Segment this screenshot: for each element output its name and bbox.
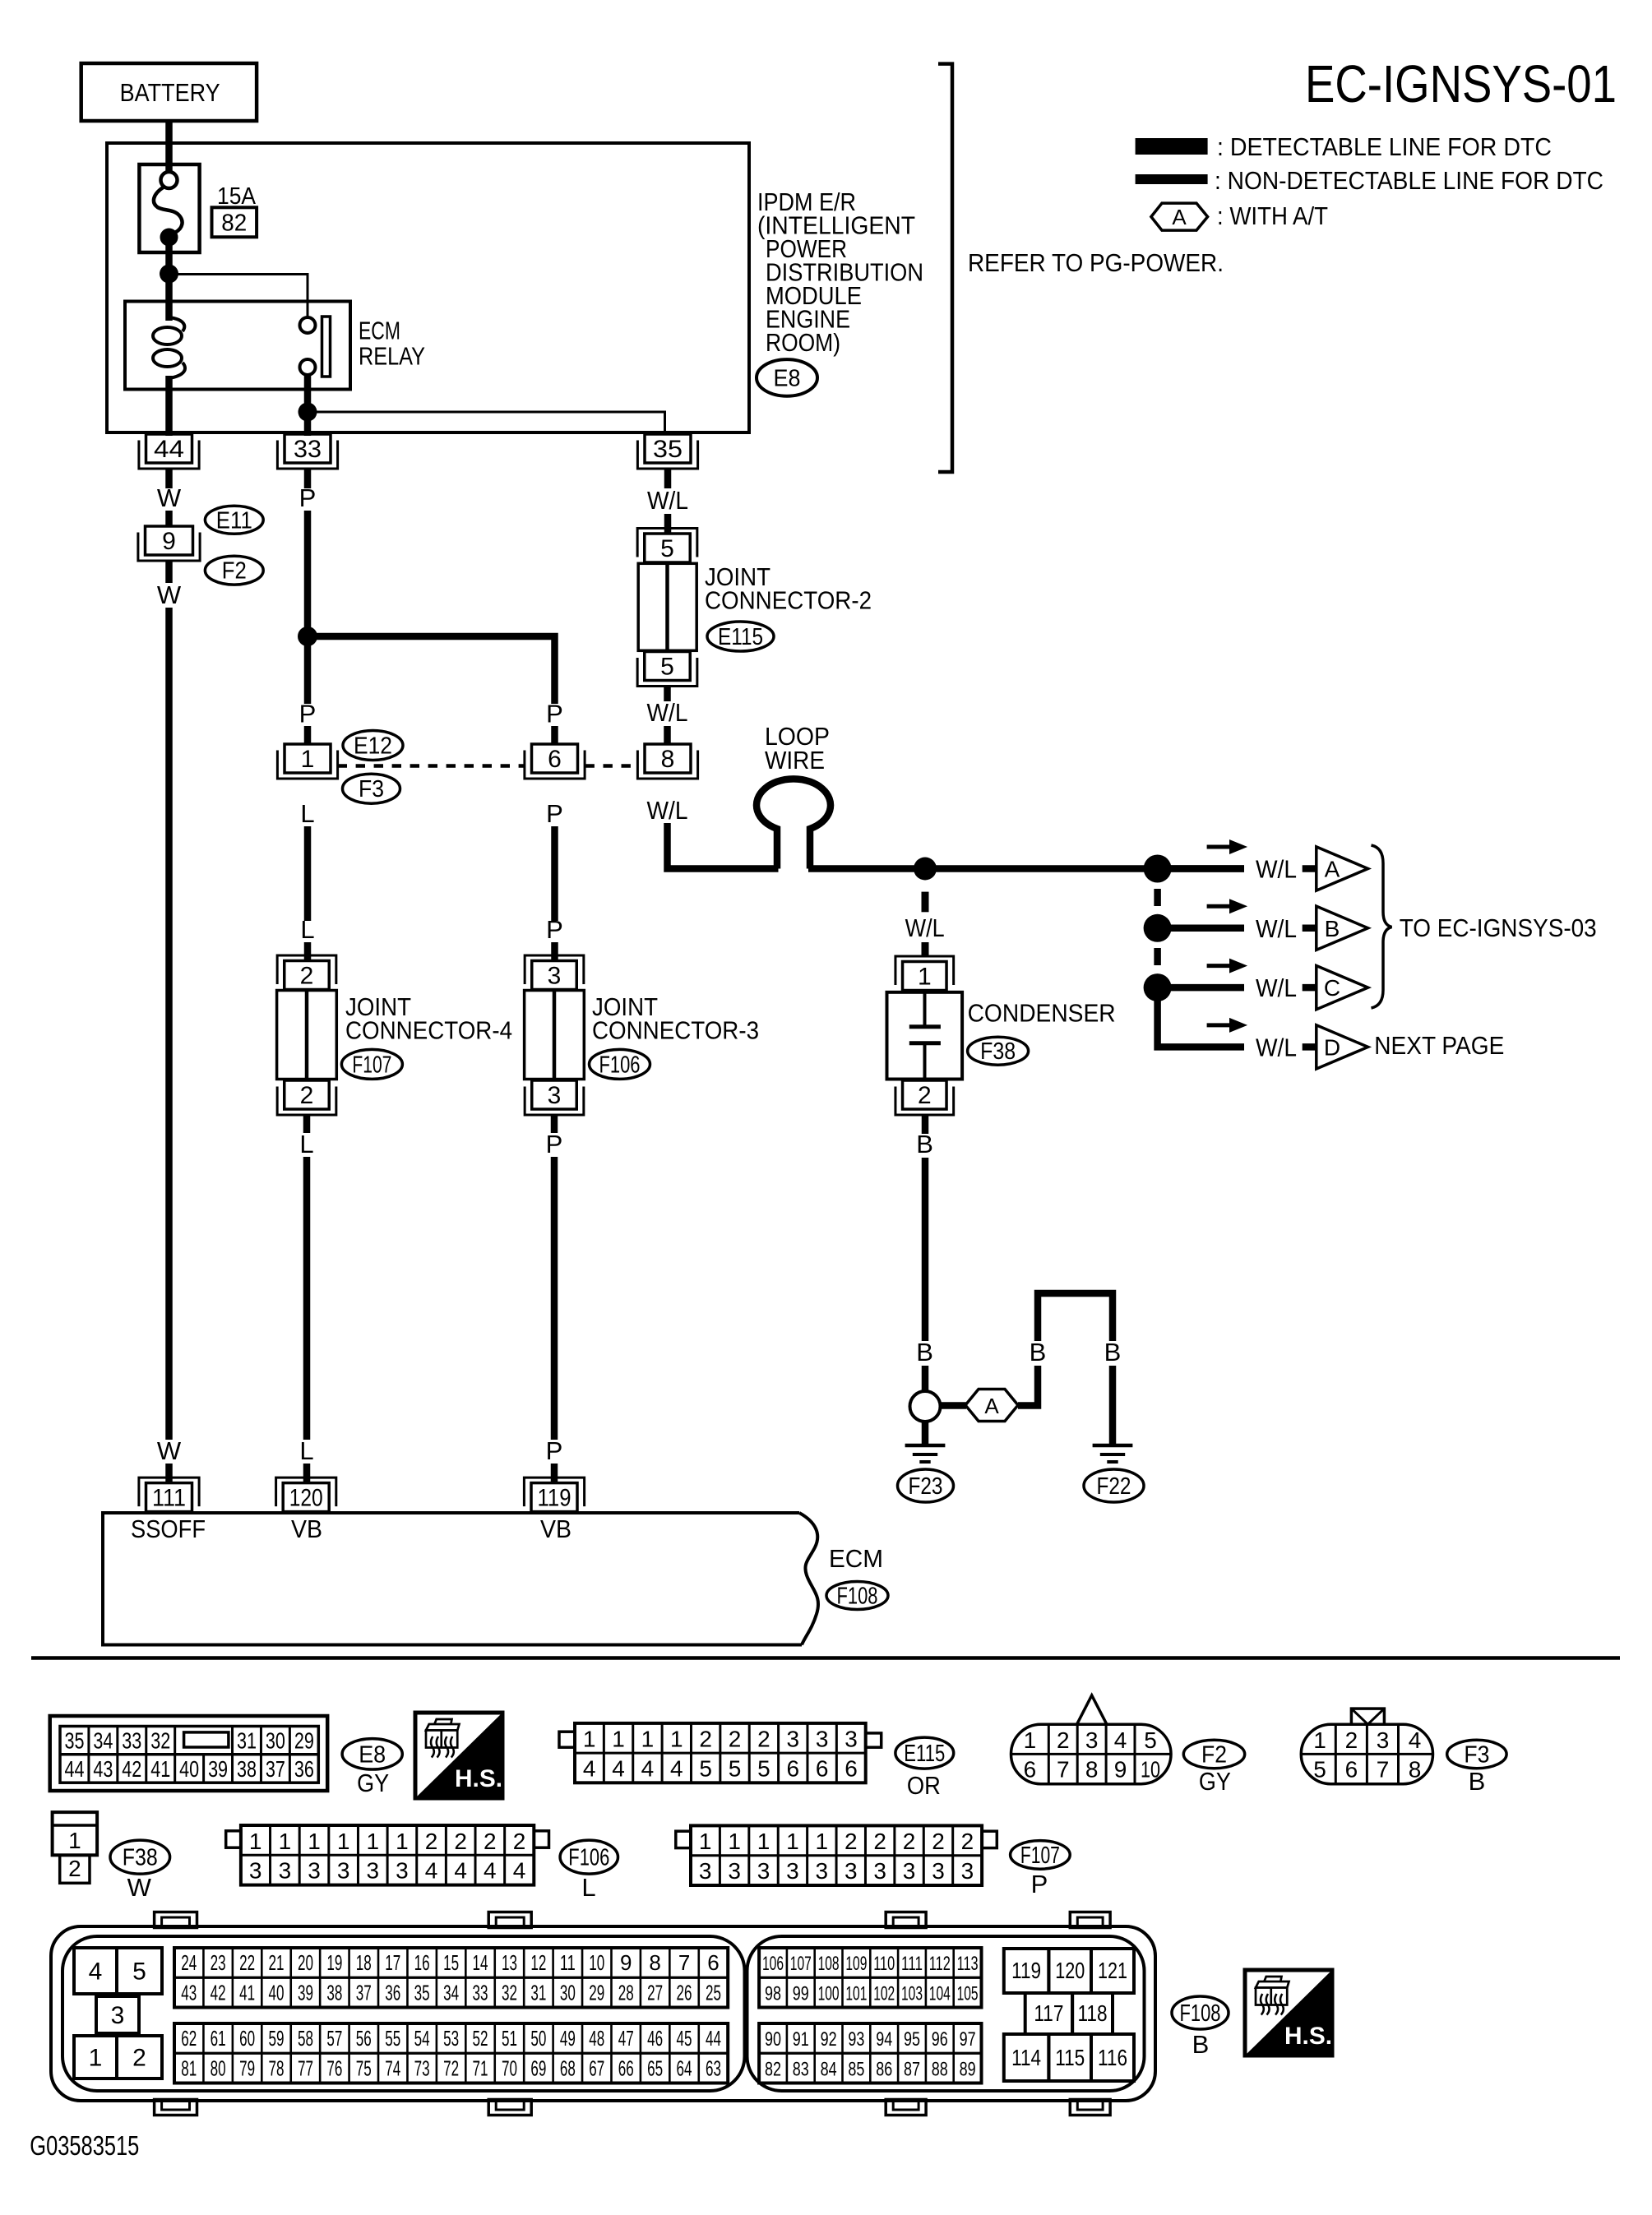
svg-text:1: 1 [249, 1829, 262, 1854]
svg-text:ECM: ECM [359, 317, 400, 345]
svg-text:40: 40 [269, 1980, 285, 2005]
svg-text:: DETECTABLE LINE FOR DTC: : DETECTABLE LINE FOR DTC [1217, 132, 1552, 161]
ECM connector bank pins 44-81 [174, 2023, 728, 2083]
svg-text:1: 1 [308, 1829, 321, 1854]
svg-text:E11: E11 [216, 507, 252, 534]
ECM pin 111 [139, 1477, 199, 1512]
wire branch A [1168, 865, 1244, 872]
svg-text:52: 52 [473, 2026, 488, 2051]
legend detectable line bar [1136, 138, 1208, 155]
svg-text:P: P [546, 700, 563, 728]
svg-text:1: 1 [918, 964, 932, 991]
IPDM pin 33 [277, 434, 337, 469]
svg-text:1: 1 [366, 1829, 379, 1854]
svg-text:E8: E8 [359, 1741, 386, 1768]
svg-text:F2: F2 [1201, 1742, 1227, 1769]
svg-text:30: 30 [266, 1728, 285, 1754]
svg-text:77: 77 [298, 2055, 313, 2080]
svg-text:5: 5 [1144, 1727, 1157, 1753]
svg-text:46: 46 [647, 2026, 663, 2051]
svg-text:W/L: W/L [1256, 914, 1297, 943]
svg-text:96: 96 [932, 2028, 948, 2051]
svg-text:85: 85 [848, 2058, 864, 2080]
connector oval F3 [343, 774, 400, 803]
svg-text:L: L [300, 915, 314, 944]
IPDM pin 35 [637, 434, 697, 469]
svg-text:34: 34 [93, 1728, 113, 1754]
ECM connector bottom tab 2 [488, 2100, 531, 2116]
svg-text:2: 2 [845, 1829, 858, 1854]
condenser C1 body [887, 992, 963, 1080]
svg-text:30: 30 [560, 1980, 576, 2005]
legend hexagon A symbol [1151, 203, 1208, 230]
IPDM E/R box E8 [107, 143, 749, 432]
svg-text:120: 120 [289, 1485, 323, 1512]
svg-text:107: 107 [790, 1953, 812, 1975]
svg-text:31: 31 [530, 1980, 546, 2005]
svg-text:21: 21 [269, 1950, 285, 1975]
ECM connector top tab 1 [155, 1912, 197, 1928]
joint connector-3 bottom pin 3 [525, 1080, 584, 1115]
dashed wire to condenser [922, 892, 929, 955]
wire B stub to shield circle [922, 1366, 929, 1391]
connector oval F108 schematic [826, 1582, 888, 1610]
svg-text:67: 67 [589, 2055, 604, 2080]
svg-text:2: 2 [1345, 1727, 1358, 1753]
svg-text:1: 1 [786, 1829, 799, 1854]
svg-text:3: 3 [548, 963, 562, 990]
connector oval E12 [343, 731, 403, 761]
wire W stub to connector 9 [165, 511, 173, 527]
connector face F107 pinout [676, 1825, 997, 1885]
svg-text:NEXT PAGE: NEXT PAGE [1374, 1031, 1504, 1060]
svg-text:116: 116 [1098, 2045, 1127, 2070]
wire branch D elbow [1158, 998, 1244, 1047]
wire battery to IPDM [165, 121, 173, 173]
svg-text:47: 47 [618, 2026, 634, 2051]
brace to EC-IGNSYS-03 [1372, 845, 1392, 1008]
connector oval E11 [205, 506, 263, 534]
svg-text:115: 115 [1055, 2045, 1085, 2070]
svg-text:F2: F2 [222, 558, 247, 585]
svg-text:3: 3 [396, 1858, 409, 1884]
inline connector pin 8 [637, 744, 697, 779]
svg-text:REFER TO PG-POWER.: REFER TO PG-POWER. [968, 248, 1224, 277]
svg-text:G03583515: G03583515 [30, 2130, 139, 2161]
wire P2 run [551, 826, 558, 921]
svg-text:54: 54 [414, 2026, 430, 2051]
svg-text:118: 118 [1078, 2000, 1108, 2026]
svg-text:12: 12 [530, 1950, 546, 1975]
svg-text:7: 7 [678, 1950, 690, 1975]
svg-text:6: 6 [707, 1950, 719, 1975]
loop wire [757, 779, 831, 868]
svg-text:51: 51 [502, 2026, 517, 2051]
svg-text:5: 5 [699, 1756, 712, 1782]
svg-text:2: 2 [425, 1829, 438, 1854]
svg-text:38: 38 [326, 1980, 342, 2005]
connector oval E115 detail [895, 1737, 954, 1769]
wire branch D stub [1303, 1043, 1316, 1051]
junction dot branch C [1144, 973, 1172, 1001]
svg-text:H.S.: H.S. [455, 1765, 502, 1792]
wire branch B stub [1303, 925, 1316, 932]
svg-text:1: 1 [816, 1829, 829, 1854]
svg-text:3: 3 [111, 2002, 125, 2029]
svg-text:78: 78 [269, 2055, 285, 2080]
svg-text:F23: F23 [909, 1473, 943, 1500]
svg-text:B: B [1325, 916, 1340, 941]
svg-text:E115: E115 [904, 1741, 945, 1767]
svg-text:EC-IGNSYS-01: EC-IGNSYS-01 [1305, 54, 1617, 113]
svg-text:A: A [1172, 205, 1187, 229]
svg-text:D: D [1324, 1034, 1340, 1060]
off-page triangle B [1317, 906, 1368, 950]
svg-text:W: W [127, 1873, 152, 1902]
arrow branch A [1207, 839, 1248, 854]
svg-text:P: P [1031, 1870, 1048, 1898]
wire P2 stub to ECM 119 [551, 1464, 558, 1484]
svg-text:3: 3 [961, 1858, 974, 1884]
wire circle to hexagon [941, 1402, 967, 1409]
svg-text:26: 26 [677, 1980, 692, 2005]
off-page triangle A [1317, 847, 1368, 890]
svg-text:4: 4 [425, 1858, 438, 1884]
svg-text:B: B [1469, 1767, 1486, 1796]
svg-text:F106: F106 [599, 1052, 641, 1078]
svg-text:11: 11 [560, 1950, 576, 1975]
wire 9 stub down [165, 561, 173, 583]
relay label ECM RELAY [359, 317, 425, 371]
svg-text:P: P [299, 483, 317, 512]
connector oval F23 [898, 1469, 954, 1502]
svg-text:3: 3 [249, 1858, 262, 1884]
svg-text:63: 63 [706, 2055, 721, 2080]
wire branch C stub [1303, 984, 1316, 992]
svg-text:4: 4 [583, 1756, 596, 1782]
dashed link 1 to 6 [338, 764, 525, 768]
svg-text:1: 1 [757, 1829, 770, 1854]
connector face E115 pinout [559, 1723, 882, 1783]
svg-text:41: 41 [239, 1980, 255, 2005]
joint connector-3 body F106 [525, 991, 585, 1080]
svg-text:48: 48 [589, 2026, 604, 2051]
svg-text:1: 1 [699, 1829, 712, 1854]
svg-text:41: 41 [150, 1756, 170, 1782]
wire P stub into 1 [304, 726, 312, 745]
svg-text:31: 31 [237, 1728, 257, 1754]
svg-text:35: 35 [414, 1980, 430, 2005]
wire P2 long run [551, 1157, 558, 1440]
fuse number 82 box [212, 207, 257, 237]
relay coil [153, 317, 185, 378]
svg-text:3: 3 [845, 1858, 858, 1884]
connector oval F2 [205, 556, 263, 585]
arrow branch D [1207, 1018, 1248, 1033]
svg-text:4: 4 [641, 1756, 655, 1782]
svg-text:76: 76 [326, 2055, 342, 2080]
connector oval F108 detail [1172, 1996, 1229, 2029]
svg-text:5: 5 [660, 654, 674, 681]
svg-text:43: 43 [93, 1756, 113, 1782]
svg-text:3: 3 [932, 1858, 945, 1884]
svg-text:10: 10 [589, 1950, 604, 1975]
svg-text:119: 119 [538, 1485, 571, 1512]
ground symbol F22 [1093, 1445, 1133, 1462]
svg-text:27: 27 [647, 1980, 663, 2005]
ECM box F108 [103, 1513, 818, 1645]
inline connector pin 6 [525, 744, 585, 779]
svg-text:108: 108 [818, 1953, 840, 1975]
svg-text:4: 4 [612, 1756, 625, 1782]
svg-text:GY: GY [1199, 1767, 1231, 1796]
svg-text:4: 4 [1409, 1727, 1422, 1753]
junction dot relay output [298, 403, 317, 422]
svg-text:4: 4 [670, 1756, 683, 1782]
svg-text:38: 38 [237, 1756, 257, 1782]
joint connector-4 label [345, 992, 512, 1045]
svg-text:19: 19 [326, 1950, 342, 1975]
svg-text:64: 64 [677, 2055, 692, 2080]
svg-text:73: 73 [414, 2055, 430, 2080]
svg-text:25: 25 [706, 1980, 721, 2005]
joint connector-3 top pin 3 [525, 955, 584, 990]
ECM relay box [125, 302, 350, 390]
svg-text:55: 55 [385, 2026, 400, 2051]
connector oval F2 detail [1183, 1740, 1244, 1768]
joint connector-2 bottom pin 5 [637, 652, 697, 687]
svg-text:43: 43 [181, 1980, 197, 2005]
ECM connector key block pins 1-5 [74, 1948, 162, 2079]
arrow branch B [1207, 899, 1248, 913]
svg-text:81: 81 [181, 2055, 197, 2080]
svg-text:45: 45 [677, 2026, 692, 2051]
svg-text:1: 1 [641, 1727, 655, 1752]
svg-text:91: 91 [793, 2028, 809, 2051]
svg-text:P: P [299, 700, 317, 728]
connector oval F107 schematic [341, 1049, 402, 1079]
svg-text:1: 1 [728, 1829, 741, 1854]
svg-text:W: W [157, 580, 182, 609]
svg-text:3: 3 [757, 1858, 770, 1884]
svg-text:119: 119 [1011, 1958, 1041, 1983]
wire branch B [1168, 925, 1244, 932]
svg-text:2: 2 [873, 1829, 886, 1854]
svg-text:1: 1 [89, 2045, 103, 2072]
svg-text:2: 2 [1057, 1727, 1070, 1753]
svg-text:15: 15 [443, 1950, 459, 1975]
svg-text:88: 88 [932, 2058, 948, 2080]
wire B run to ground [922, 1158, 929, 1341]
wire pin33 stub [304, 469, 312, 488]
svg-text:101: 101 [845, 1982, 867, 2005]
svg-text:1: 1 [612, 1727, 625, 1752]
svg-text:3: 3 [1377, 1727, 1390, 1753]
svg-text:OR: OR [907, 1771, 941, 1800]
svg-text:VB: VB [291, 1514, 322, 1543]
svg-text:F108: F108 [1180, 2000, 1221, 2027]
svg-text:49: 49 [560, 2026, 576, 2051]
ECM connector bank pins 6-43 [174, 1948, 728, 2008]
svg-text:: NON-DETECTABLE LINE FOR DTC: : NON-DETECTABLE LINE FOR DTC [1215, 166, 1603, 195]
svg-text:3: 3 [786, 1858, 799, 1884]
arrow branch C [1207, 959, 1248, 973]
ECM connector top tab 3 [886, 1912, 926, 1928]
svg-text:B: B [1192, 2030, 1210, 2059]
connector oval E8 detail [342, 1739, 402, 1769]
connector face F3 pinout [1301, 1709, 1432, 1784]
svg-text:50: 50 [530, 2026, 546, 2051]
svg-text:P: P [546, 1436, 563, 1465]
svg-text:1: 1 [301, 746, 315, 773]
svg-text:6: 6 [786, 1756, 799, 1782]
wire pin44 stub [165, 469, 173, 488]
shield circle joint [910, 1391, 941, 1422]
svg-text:ECM: ECM [829, 1544, 883, 1573]
svg-text:60: 60 [239, 2026, 255, 2051]
wire P2 stub into JC3 [551, 942, 558, 962]
svg-text:5: 5 [757, 1756, 770, 1782]
wire relay contact to pin 33 [304, 375, 312, 436]
connector oval F106 schematic [590, 1049, 650, 1079]
svg-text:120: 120 [1055, 1958, 1085, 1983]
wire W/L main horizontal [808, 865, 1244, 872]
svg-text:GY: GY [357, 1769, 389, 1797]
joint connector-2 body E115 [638, 563, 696, 650]
svg-text:5: 5 [1313, 1757, 1326, 1783]
fuse 15A element [154, 172, 183, 247]
dashed link dot B to C [1154, 948, 1161, 965]
svg-text:24: 24 [181, 1950, 197, 1975]
svg-text:42: 42 [211, 1980, 226, 2005]
wire L run [304, 826, 312, 921]
off-page triangle C [1317, 966, 1368, 1010]
condenser pin 2 [895, 1080, 954, 1115]
svg-text:F3: F3 [1464, 1742, 1489, 1769]
ECM connector top tab 4 [1070, 1912, 1110, 1928]
wire circle to ground F23 [922, 1422, 929, 1444]
svg-text:40: 40 [179, 1756, 199, 1782]
IPDM pin 44 [139, 434, 199, 469]
wire P run to junction [304, 511, 312, 636]
svg-text:103: 103 [901, 1982, 923, 2005]
wire P branch to connector 6 [308, 636, 555, 704]
off-page triangle D [1317, 1025, 1368, 1069]
svg-text:114: 114 [1011, 2045, 1041, 2070]
ECM connector bank pins 98-113 [759, 1948, 981, 2008]
svg-text:110: 110 [873, 1953, 895, 1975]
bracket right of IPDM [938, 64, 952, 472]
svg-text:6: 6 [1345, 1757, 1358, 1783]
svg-text:35: 35 [64, 1728, 84, 1754]
wire hexagon elbow up [1018, 1366, 1038, 1406]
wire JC3 stub down [551, 1115, 558, 1133]
svg-text:56: 56 [356, 2026, 372, 2051]
wire L stub into JC4 [304, 942, 312, 962]
svg-text:87: 87 [904, 2058, 920, 2080]
svg-text:1: 1 [279, 1829, 292, 1854]
svg-text:3: 3 [845, 1727, 858, 1752]
svg-text:F107: F107 [1020, 1843, 1060, 1869]
svg-text:28: 28 [618, 1980, 634, 2005]
relay contact bar [322, 317, 331, 377]
wire junction to relay contact [169, 275, 308, 318]
svg-text:2: 2 [961, 1829, 974, 1854]
svg-text:62: 62 [181, 2026, 197, 2051]
hexagon with A/T symbol [965, 1390, 1018, 1422]
svg-text:8: 8 [649, 1950, 660, 1975]
svg-text:1: 1 [396, 1829, 409, 1854]
wire JC2 stub down [664, 687, 671, 701]
svg-text:2: 2 [918, 1082, 932, 1109]
svg-text:WIRE: WIRE [765, 746, 825, 775]
svg-text:3: 3 [699, 1858, 712, 1884]
ECM connector left shell [62, 1936, 745, 2091]
svg-text:104: 104 [929, 1982, 951, 2005]
svg-text:98: 98 [765, 1982, 781, 2005]
svg-text:F38: F38 [123, 1845, 158, 1871]
joint connector-4 top pin 2 [277, 955, 336, 990]
svg-text:29: 29 [294, 1728, 314, 1754]
svg-text:1: 1 [1313, 1727, 1326, 1753]
ECM connector bank pins 82-97 [759, 2023, 981, 2083]
ECM connector bottom tab 3 [886, 2100, 926, 2116]
svg-text:42: 42 [122, 1756, 141, 1782]
wire branch A stub [1303, 865, 1316, 872]
connector face F2 pinout [1011, 1695, 1172, 1784]
svg-text:32: 32 [502, 1980, 517, 2005]
svg-text:3: 3 [548, 1082, 562, 1109]
svg-text:2: 2 [300, 1082, 314, 1109]
svg-text:A: A [1325, 857, 1340, 882]
ECM connector top tab 2 [488, 1912, 531, 1928]
wire branch C [1168, 984, 1244, 992]
svg-text:10: 10 [1141, 1757, 1160, 1783]
svg-text:3: 3 [366, 1858, 379, 1884]
ground symbol F23 [905, 1445, 946, 1462]
svg-text:VB: VB [540, 1514, 571, 1543]
svg-text:CONNECTOR-2: CONNECTOR-2 [705, 586, 872, 615]
wire JC4 stub down [303, 1115, 311, 1133]
svg-text:80: 80 [211, 2055, 226, 2080]
svg-text:32: 32 [150, 1728, 170, 1754]
svg-text:61: 61 [211, 2026, 226, 2051]
wire condenser stub down [922, 1116, 929, 1134]
svg-text:37: 37 [266, 1756, 285, 1782]
svg-text:7: 7 [1377, 1757, 1390, 1783]
loop wire label [765, 722, 830, 775]
svg-text:F38: F38 [980, 1038, 1016, 1065]
svg-text:79: 79 [239, 2055, 255, 2080]
svg-text:SSOFF: SSOFF [131, 1514, 206, 1543]
svg-text:121: 121 [1098, 1958, 1127, 1983]
connector face E8 pinout [50, 1716, 328, 1791]
svg-text:6: 6 [1024, 1757, 1037, 1783]
svg-text:18: 18 [356, 1950, 372, 1975]
svg-text:H.S.: H.S. [1284, 2023, 1332, 2050]
svg-text:84: 84 [821, 2058, 837, 2080]
svg-text:1: 1 [1024, 1727, 1037, 1753]
connector oval F38 schematic [968, 1037, 1029, 1065]
svg-text:3: 3 [308, 1858, 321, 1884]
svg-text:3: 3 [816, 1858, 829, 1884]
wire P down to connector 1 [304, 636, 312, 704]
svg-text:4: 4 [484, 1858, 497, 1884]
svg-text:86: 86 [876, 2058, 892, 2080]
svg-text:3: 3 [279, 1858, 292, 1884]
svg-text:2: 2 [699, 1727, 712, 1752]
relay contact circles [300, 317, 316, 375]
